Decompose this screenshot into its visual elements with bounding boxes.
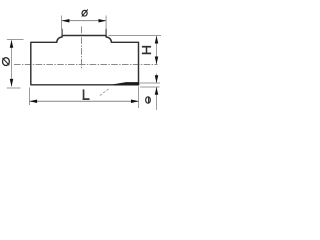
e label (rotated) bbox=[146, 97, 151, 103]
e dim lower segment bbox=[156, 87, 158, 110]
centerline vertical (branch axis) bbox=[81, 27, 83, 69]
left dim extension top bbox=[7, 39, 24, 41]
L label bbox=[83, 89, 90, 100]
left dim arrow down bbox=[10, 79, 14, 87]
branch bevel lip left bbox=[61, 29, 63, 36]
H dim extension (branch end level) bbox=[109, 35, 162, 37]
top dim arrow left bbox=[62, 19, 70, 23]
top dim label Ø bbox=[82, 9, 88, 16]
left dim arrow up bbox=[10, 40, 14, 48]
L dim line bbox=[30, 100, 139, 102]
e dim extension top bbox=[140, 82, 160, 84]
L dim arrow left bbox=[29, 99, 37, 103]
weld wall section (blackened) bbox=[114, 82, 140, 85]
e dim extension bottom bbox=[140, 86, 160, 88]
top dim line bbox=[62, 20, 106, 22]
top dim extension line left bbox=[61, 16, 63, 30]
e dim arrow up bbox=[155, 87, 159, 95]
L dim arrow right bbox=[131, 99, 139, 103]
H label (rotated) bbox=[142, 47, 151, 54]
L dim extension right bbox=[138, 86, 140, 108]
top dim extension line right bbox=[105, 16, 107, 30]
H dim vertical line bbox=[156, 36, 158, 64]
L dim extension left bbox=[29, 88, 31, 106]
top dim arrow right bbox=[99, 19, 107, 23]
branch bevel lip right bbox=[105, 29, 107, 36]
centerline horizontal (run axis) bbox=[14, 64, 158, 66]
leader line to weld section bbox=[100, 88, 110, 95]
left dim extension bottom bbox=[7, 87, 21, 89]
H dim arrow up bbox=[155, 36, 159, 44]
H dim arrow down (to centerline) bbox=[155, 57, 159, 65]
e dim arrow down bbox=[155, 75, 159, 83]
tee body outline bbox=[31, 36, 139, 85]
left dim line bbox=[11, 40, 13, 86]
left dim label Ø (rotated) bbox=[3, 58, 10, 66]
e dim upper segment bbox=[156, 74, 158, 84]
